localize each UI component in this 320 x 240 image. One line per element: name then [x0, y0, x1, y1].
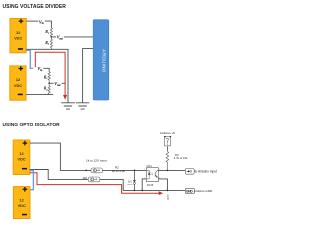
svg-text:VDC: VDC: [18, 203, 26, 208]
wire Vin2 to R1 top: [43, 68, 49, 72]
light arrows: [151, 173, 152, 175]
wire B1- ground rail: [26, 49, 68, 102]
svg-text:4.7k or 10k: 4.7k or 10k: [174, 156, 188, 160]
node Vout (divider 1): [51, 36, 53, 38]
svg-text:Arduino +5: Arduino +5: [160, 131, 175, 135]
wire Vout1 to Arduino: [64, 36, 93, 38]
wire B3- to R5: [30, 170, 89, 180]
svg-text:VDC: VDC: [14, 36, 22, 41]
opto-isolator OK1 4N35: [144, 164, 161, 187]
resistor R2 (divider 1): [50, 37, 52, 49]
wire opto emitter to rail: [158, 179, 167, 191]
blue wire B1- to B2+: [26, 50, 33, 68]
+5V supply box: [164, 136, 171, 146]
wire R5 to ground rail: [100, 179, 186, 190]
wire Vout2 to red wire: [62, 82, 65, 84]
wire B2- to R2 bottom: [26, 94, 53, 96]
junction dot collector/pullup: [167, 170, 169, 172]
svg-text:to Arduino Input: to Arduino Input: [195, 170, 217, 174]
svg-text:ARDUINO: ARDUINO: [102, 49, 107, 72]
battery B1 12VDC: [10, 19, 26, 53]
svg-text:Arduino GND: Arduino GND: [194, 189, 213, 193]
resistor R2 (divider 2): [48, 83, 50, 94]
svg-text:GND: GND: [186, 189, 193, 193]
node Vout (divider 2): [48, 82, 50, 84]
wire Arduino GND to ground: [83, 49, 94, 103]
svg-text:1k0: 1k0: [82, 176, 87, 180]
svg-text:OK1: OK1: [147, 164, 153, 168]
LED inside opto: [146, 170, 150, 179]
Arduino board: [93, 20, 108, 100]
wire R4 to opto anode: [102, 169, 146, 171]
battery B4 12VDC: [13, 187, 30, 219]
svg-text:4N35: 4N35: [147, 183, 154, 187]
battery B2 12VDC: [10, 66, 26, 100]
resistor R4 1k (LED series, box style): [91, 168, 102, 173]
svg-text:GND: GND: [166, 195, 170, 201]
resistor R1 (divider 2): [48, 72, 50, 84]
wire +5 box to R3: [166, 146, 168, 151]
wire B1+ to Vin node: [26, 20, 38, 22]
GND flag: [185, 188, 194, 193]
wire opto cathode to rail: [142, 179, 146, 191]
ground (divider section): [61, 103, 75, 109]
svg-text:VDC: VDC: [14, 83, 22, 88]
resistor R5 1k0 (box style): [88, 177, 99, 182]
battery B3 12VDC: [13, 140, 30, 175]
svg-text:VDC: VDC: [17, 157, 25, 162]
wire Vin to R1 top: [45, 21, 52, 28]
junction dot anode/zener: [134, 170, 136, 172]
svg-text:zener: zener: [127, 183, 133, 186]
svg-text:1k to 3.3k: 1k to 3.3k: [112, 169, 126, 173]
resistor R3 pull-up: [166, 152, 169, 171]
input flag: [185, 169, 194, 175]
wire B3+ to R4: [30, 143, 91, 170]
svg-text:USING OPTO ISOLATOR: USING OPTO ISOLATOR: [3, 122, 61, 128]
junction dot before R4: [85, 170, 87, 172]
red annotation wire to ground: [35, 52, 65, 95]
svg-text:1: 1: [144, 169, 145, 171]
zener diode 5v1: [133, 170, 136, 190]
svg-text:USING VOLTAGE DIVIDER: USING VOLTAGE DIVIDER: [3, 4, 67, 10]
ground (Arduino): [76, 103, 89, 109]
junction dots on ground rail: [134, 190, 136, 192]
svg-text:1k to 12V input: 1k to 12V input: [86, 158, 107, 162]
blue wire B3- to B4+: [30, 171, 34, 190]
wire opto collector to input flag: [158, 169, 185, 171]
resistor R1 (divider 1): [50, 28, 52, 37]
phototransistor inside opto: [155, 170, 158, 177]
red annotation wire B3- to GND arrow: [30, 173, 159, 194]
